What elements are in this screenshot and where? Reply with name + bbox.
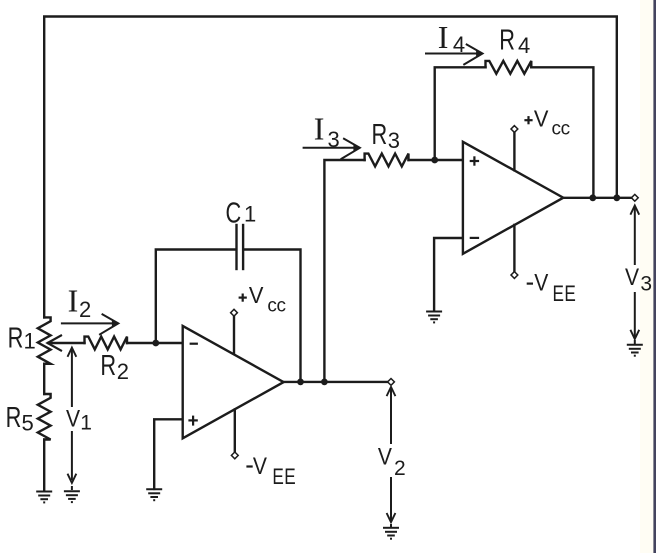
capacitor C1 left plate bbox=[235, 225, 237, 269]
junction node R2/C1/U1 minus bbox=[152, 340, 159, 347]
V2 arrowhead up bbox=[387, 387, 396, 396]
svg-text:EE: EE bbox=[272, 465, 296, 490]
V1 arrowhead up bbox=[68, 348, 77, 357]
svg-text:3: 3 bbox=[640, 272, 652, 295]
wire U1 -VEE supply bbox=[234, 410, 236, 453]
wire op-amp U1 plus input to ground bbox=[154, 419, 183, 489]
terminal diamond U2 -VEE bbox=[511, 272, 518, 279]
svg-text:3: 3 bbox=[328, 127, 340, 152]
svg-text:1: 1 bbox=[80, 411, 92, 434]
V3 arrowhead down bbox=[630, 330, 639, 339]
label minus of U2 -VEE bbox=[527, 283, 533, 285]
svg-text:C: C bbox=[226, 198, 242, 230]
voltage arrow V1 bbox=[71, 350, 73, 479]
U2 pin plus sign bbox=[470, 156, 479, 165]
ground under V2 bbox=[383, 524, 399, 539]
junction node C1/output1 bbox=[297, 379, 304, 386]
current arrow I3 bbox=[304, 139, 361, 159]
junction node feedback/output2 bbox=[613, 194, 620, 201]
svg-text:V: V bbox=[253, 453, 267, 480]
wire U2 inverting input to ground bbox=[434, 238, 463, 311]
wire R1 to R5 bbox=[43, 364, 45, 394]
wire riser from output node to R3 input bbox=[324, 160, 364, 382]
terminal diamond U1 +Vcc bbox=[231, 309, 238, 316]
op-amp U1 bbox=[183, 326, 284, 438]
current arrow I2 bbox=[62, 314, 119, 334]
resistor R4 bbox=[486, 61, 532, 74]
junction node riser/output1 bbox=[321, 379, 328, 386]
terminal diamond V3 output bbox=[631, 194, 638, 201]
label minus of U1 -VEE bbox=[246, 465, 252, 467]
terminal diamond U2 +Vcc bbox=[511, 126, 518, 133]
wire R4 feedback branch bbox=[435, 67, 486, 160]
voltage arrow V3 bbox=[634, 208, 636, 337]
svg-text:3: 3 bbox=[388, 128, 400, 153]
wire U1 +Vcc supply bbox=[233, 316, 235, 354]
U1 pin minus sign bbox=[190, 343, 198, 345]
V2 arrowhead down bbox=[387, 513, 396, 522]
svg-text:V: V bbox=[66, 405, 80, 432]
wire U2 +Vcc supply bbox=[513, 132, 515, 170]
svg-text:1: 1 bbox=[24, 328, 36, 353]
resistor R1 bbox=[38, 317, 51, 363]
svg-text:R: R bbox=[6, 402, 22, 434]
svg-text:cc: cc bbox=[267, 296, 285, 317]
ground U1 plus input bbox=[146, 489, 162, 500]
ground U2 inverting input bbox=[426, 312, 442, 323]
ground under V1 bbox=[64, 486, 80, 502]
svg-text:2: 2 bbox=[117, 359, 129, 384]
resistor R3 bbox=[365, 154, 409, 167]
wire R4 right leg down to output2 bbox=[531, 67, 593, 198]
junction node R3/R4/U2 plus bbox=[431, 157, 438, 164]
right edge tint strip bbox=[640, 0, 653, 553]
V1 arrowhead down bbox=[68, 474, 77, 483]
U2 pin minus sign bbox=[470, 237, 479, 239]
svg-text:2: 2 bbox=[79, 297, 91, 322]
svg-text:cc: cc bbox=[552, 118, 570, 139]
right edge border bbox=[653, 0, 656, 553]
svg-text:R: R bbox=[372, 119, 388, 151]
resistor R2 bbox=[85, 337, 128, 350]
wire R5 to ground bbox=[43, 440, 45, 491]
svg-text:V: V bbox=[534, 269, 548, 296]
wire C1 right plate down to output node bbox=[244, 250, 300, 382]
wire U1 output to V2 terminal bbox=[284, 381, 389, 383]
wire node A riser to C1 left plate bbox=[156, 250, 236, 344]
svg-text:V: V bbox=[625, 264, 639, 291]
wire U2 output to V3 terminal bbox=[563, 197, 632, 199]
ground under R5 bbox=[36, 492, 52, 503]
terminal diamond U1 -VEE bbox=[231, 452, 238, 459]
svg-text:2: 2 bbox=[394, 457, 406, 480]
V3 arrowhead up bbox=[630, 206, 639, 215]
junction node R4/output2 bbox=[589, 194, 596, 201]
op-amp U2 bbox=[463, 142, 563, 254]
svg-text:4: 4 bbox=[518, 33, 530, 58]
svg-text:4: 4 bbox=[453, 32, 465, 57]
wire R2 to op-amp U1 inverting input bbox=[127, 342, 183, 344]
R1 wiper arrowhead bbox=[48, 336, 62, 351]
voltage arrow V2 bbox=[390, 390, 392, 520]
svg-text:EE: EE bbox=[553, 282, 577, 307]
U1 pin plus sign bbox=[188, 416, 197, 426]
wire R1 wiper to R2 bbox=[49, 342, 85, 344]
svg-text:V: V bbox=[249, 283, 264, 309]
wire U2 -VEE supply bbox=[513, 225, 515, 272]
svg-text:5: 5 bbox=[22, 410, 34, 435]
terminal diamond V2 output bbox=[388, 379, 395, 386]
label plus of U2 +Vcc bbox=[524, 116, 532, 124]
label plus of U1 +Vcc bbox=[239, 294, 247, 302]
wire top feedback from output2 to R1 top bbox=[44, 17, 617, 318]
svg-text:R: R bbox=[100, 350, 116, 382]
svg-text:R: R bbox=[499, 25, 515, 57]
wire R3 to op-amp U2 non-inverting input bbox=[409, 159, 463, 161]
svg-text:I: I bbox=[68, 283, 79, 319]
ground under V3 bbox=[627, 340, 643, 356]
svg-text:V: V bbox=[378, 443, 392, 470]
svg-text:I: I bbox=[314, 111, 325, 147]
current arrow I4 bbox=[426, 45, 483, 65]
capacitor C1 right plate bbox=[242, 225, 244, 269]
svg-text:R: R bbox=[8, 323, 24, 355]
svg-text:V: V bbox=[534, 106, 549, 132]
resistor R5 bbox=[38, 394, 51, 440]
svg-text:1: 1 bbox=[244, 201, 256, 226]
svg-text:I: I bbox=[438, 19, 449, 55]
